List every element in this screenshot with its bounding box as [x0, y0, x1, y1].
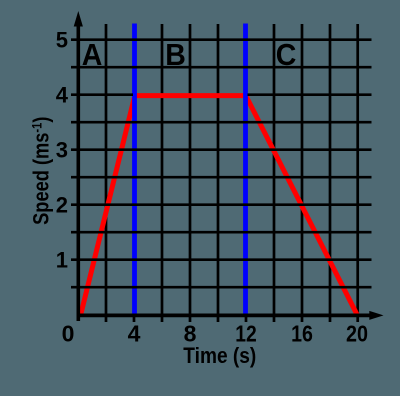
svg-text:1: 1: [56, 248, 68, 273]
svg-text:3: 3: [56, 138, 68, 163]
svg-text:A: A: [82, 38, 103, 72]
svg-text:4: 4: [56, 83, 69, 108]
svg-text:Speed (ms-1): Speed (ms-1): [29, 117, 53, 225]
svg-text:C: C: [276, 38, 297, 72]
svg-text:20: 20: [346, 321, 368, 347]
svg-text:2: 2: [56, 193, 68, 218]
svg-text:B: B: [165, 38, 186, 72]
svg-text:5: 5: [56, 28, 68, 53]
svg-text:Time (s): Time (s): [183, 344, 256, 369]
svg-text:8: 8: [184, 321, 197, 347]
svg-text:12: 12: [235, 321, 257, 347]
svg-text:4: 4: [128, 321, 141, 347]
svg-text:16: 16: [291, 321, 313, 347]
svg-text:0: 0: [62, 321, 75, 347]
